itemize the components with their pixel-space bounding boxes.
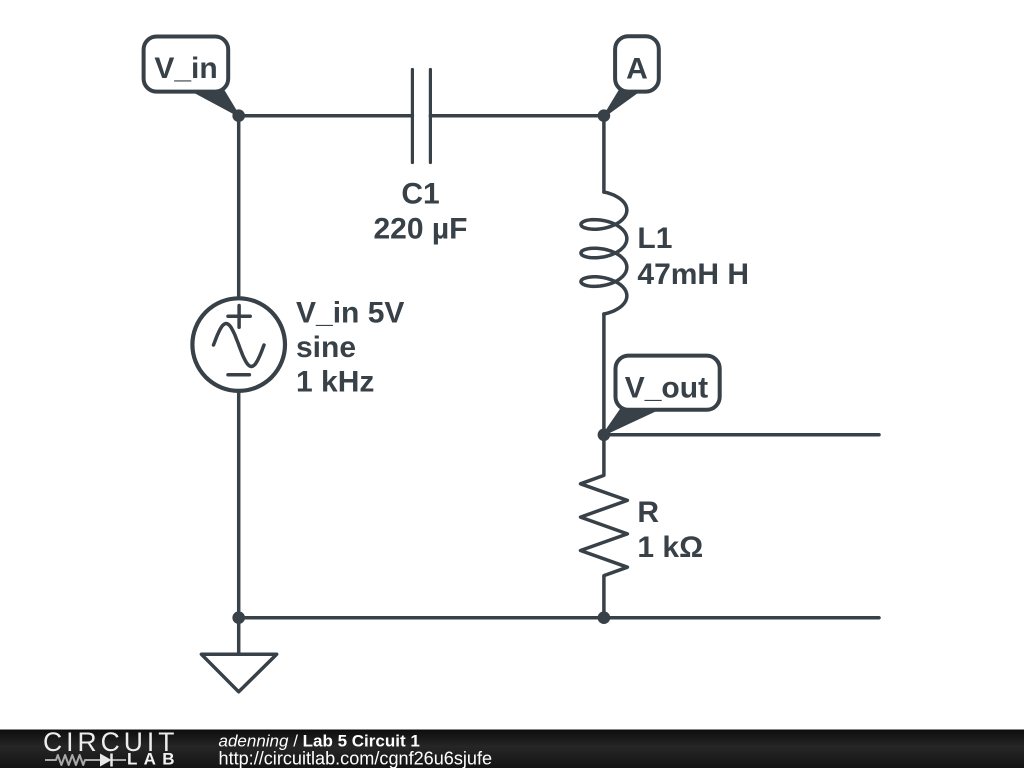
- label V_out flag box: [616, 356, 720, 410]
- wire top-right horizontal (C1 right plate to node A): [430, 114, 604, 118]
- ground symbol triangle: [201, 654, 276, 692]
- node V_in junction dot: [232, 109, 245, 122]
- svg-text:A: A: [626, 53, 648, 86]
- node bottom-left junction dot: [232, 611, 245, 624]
- wire source bottom to ground node: [237, 393, 241, 618]
- svg-text:http://circuitlab.com/cgnf26u6: http://circuitlab.com/cgnf26u6sjufe: [219, 749, 493, 768]
- label A flag tail: [604, 90, 641, 117]
- svg-text:C1: C1: [401, 178, 439, 211]
- footer bar: [0, 730, 1024, 768]
- svg-text:sine: sine: [296, 331, 356, 364]
- capacitor C1: [412, 70, 430, 163]
- value label V_in 5V sine 1kHz: [296, 297, 404, 399]
- svg-text:220 µF: 220 µF: [374, 213, 468, 246]
- svg-text:R: R: [637, 496, 659, 529]
- wire L1 bottom to V_out node: [602, 314, 606, 435]
- voltage source minus sign: [228, 373, 249, 377]
- svg-text:LAB: LAB: [127, 750, 181, 768]
- inductor L1: [581, 192, 627, 314]
- node V_out junction dot: [598, 429, 611, 442]
- svg-text:1 kHz: 1 kHz: [296, 366, 374, 399]
- svg-text:V_in: V_in: [154, 52, 217, 85]
- label A flag box: [615, 36, 659, 91]
- label V_in flag tail: [190, 90, 239, 116]
- wire bottom rail: [239, 616, 879, 620]
- wire V_in node down to source top: [237, 116, 241, 297]
- wire top-left horizontal (V_in node to C1 left plate): [239, 114, 413, 118]
- label V_in flag box: [144, 37, 229, 92]
- footer logo circuit glyph (resistor + diode): [45, 755, 126, 765]
- ground stem wire: [237, 618, 241, 655]
- label V_out flag tail: [603, 408, 661, 435]
- voltage source sine wave: [214, 324, 265, 367]
- svg-text:V_out: V_out: [625, 372, 708, 405]
- svg-text:47mH H: 47mH H: [637, 258, 749, 291]
- node bottom-right junction dot: [598, 611, 611, 624]
- svg-text:1 kΩ: 1 kΩ: [637, 531, 703, 564]
- node A junction dot: [598, 109, 611, 122]
- svg-text:V_in 5V: V_in 5V: [296, 297, 404, 330]
- footer logo diode bar: [110, 754, 113, 767]
- footer logo diode triangle: [100, 754, 112, 767]
- svg-text:L1: L1: [637, 222, 672, 255]
- resistor R: [581, 435, 628, 618]
- wire V_out horizontal rail: [604, 433, 879, 437]
- voltage source plus sign: [228, 306, 250, 328]
- wire node A down to L1 top: [602, 116, 606, 192]
